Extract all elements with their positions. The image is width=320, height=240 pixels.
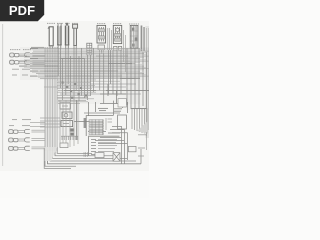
flasher box with X: [113, 153, 120, 162]
left cluster A label text: [10, 49, 32, 51]
switch box S2: [62, 112, 72, 118]
lower mid wires left: [40, 118, 60, 127]
label text above fusible link K3: [129, 23, 139, 25]
cluster A small text row 1: [12, 68, 30, 70]
T1 row 2: [91, 142, 116, 144]
dark accent long rows: [30, 61, 130, 76]
connector plug B1: [9, 130, 18, 134]
fuse F3: [65, 23, 69, 46]
connector plug A2: [10, 60, 19, 64]
wire pair B2: [18, 139, 45, 141]
lower stepped wires: [44, 81, 149, 103]
relay pin verticals: [100, 50, 121, 104]
connector socket A2: [25, 60, 30, 64]
bottom right text 1: [138, 134, 146, 136]
mesh verticals: [63, 48, 94, 102]
lamp box L2: [128, 146, 136, 151]
wire drop to M1: [112, 101, 114, 116]
T1 row 3: [91, 145, 117, 147]
connector plug B2: [9, 138, 18, 142]
wire pair B3: [18, 147, 45, 149]
cluster A small text row 2: [12, 74, 28, 76]
PDF badge: [0, 0, 44, 21]
ignition switch contacts: [70, 128, 75, 135]
cluster B wires to band: [30, 123, 45, 127]
nested bend wires bottom-left: [44, 147, 136, 168]
left cluster B text 1: [12, 119, 31, 121]
lamp box L1: [95, 153, 104, 158]
top-left bus label text: [31, 46, 44, 48]
connector socket B3: [25, 146, 30, 150]
page left border line: [2, 24, 4, 166]
mesh fill texture faint lines: [24, 50, 146, 78]
scan wash right column: [126, 48, 149, 110]
fuse F1 pins: [50, 46, 52, 49]
comb left of T1: [84, 152, 87, 157]
long bottom wire: [48, 150, 142, 164]
right edge scan band: [145, 26, 149, 138]
connector socket B1: [25, 129, 30, 133]
fuse F1: [48, 27, 53, 46]
T1 row 1: [91, 139, 117, 141]
relay R2 socket: [114, 46, 122, 50]
scan wash switch stack: [58, 100, 80, 140]
wire bundle band: [45, 47, 58, 161]
junction box JB1: [118, 99, 126, 107]
busbar right of K3: [141, 26, 145, 52]
bottom right text 3: [138, 155, 144, 157]
M1 inner right detail: [106, 118, 112, 130]
wire top dark over M1: [84, 112, 120, 114]
svg-text:PDF: PDF: [9, 3, 35, 18]
switch box S1: [60, 103, 70, 109]
wire right edge vertical 2: [147, 28, 149, 130]
label text above relay R1: [97, 23, 106, 25]
left cluster B text 2: [9, 125, 30, 127]
switch column risers: [77, 100, 96, 140]
fuse F3 pins: [66, 46, 69, 49]
wire right edge vertical 1: [145, 28, 147, 136]
fuse F2: [57, 23, 61, 45]
wire right of JB1: [127, 102, 129, 113]
label text row above fuses: [47, 22, 78, 24]
switch stack dark block: [84, 118, 87, 128]
junction box JB2: [118, 115, 127, 129]
connector plug A1: [10, 53, 19, 57]
heater ladder component: [87, 43, 92, 55]
T1 row 5: [91, 151, 114, 153]
right group verticals: [127, 48, 146, 108]
fuse F2 center pin: [58, 26, 60, 43]
dark accent wire segments: [30, 56, 149, 133]
mesh junction nodes: [62, 82, 87, 99]
legend table T1: [89, 136, 120, 156]
connector socket B2: [25, 138, 30, 142]
inter-relay verticals: [108, 28, 126, 72]
small resistor box lower: [60, 143, 68, 148]
label text above relay R2: [113, 23, 122, 25]
relay R2: [113, 25, 121, 43]
connector socket A1: [24, 53, 29, 57]
bottom right riser: [140, 149, 142, 164]
comb row under switches: [61, 136, 78, 140]
fuse F4 body: [73, 28, 77, 46]
vertical drops from fuses: [58, 46, 76, 100]
M1 pin row ticks: [92, 119, 103, 134]
relay R1 socket: [98, 45, 104, 53]
page background: [0, 0, 149, 198]
right edge wire lower: [146, 132, 148, 150]
connector plug B3: [9, 146, 18, 150]
wire pair B1: [18, 130, 45, 132]
fuse F4 pins: [74, 46, 76, 49]
scan wash mid cluster: [56, 80, 140, 104]
verticals into bottom area: [60, 100, 78, 147]
wire pair A1: [19, 54, 45, 57]
fuse F3 center pin: [66, 26, 68, 43]
bottom right text 2: [138, 147, 145, 149]
bottom wires right bends: [95, 126, 127, 163]
mid cluster extra horizontals: [57, 80, 96, 102]
comb connector CN1: [131, 109, 148, 134]
scanned page tint: [0, 21, 149, 171]
scan wash over bus: [20, 47, 149, 80]
T1 row 6: [91, 153, 97, 155]
bend band shading: [45, 147, 58, 161]
instrument box M1: [86, 116, 113, 136]
relay R1: [97, 25, 106, 43]
fuse F2 pins: [58, 46, 61, 49]
T1 row 4: [91, 148, 115, 150]
label text above M1: [98, 108, 122, 111]
wire pair A2: [19, 61, 45, 64]
switch box S3: [61, 121, 73, 127]
fusible link box K3: [130, 25, 138, 48]
fuse F4 cap: [73, 24, 78, 28]
bus left dark stubs: [19, 49, 38, 77]
horizontal wire bus: [19, 49, 149, 79]
M1 pin rows: [89, 120, 103, 135]
